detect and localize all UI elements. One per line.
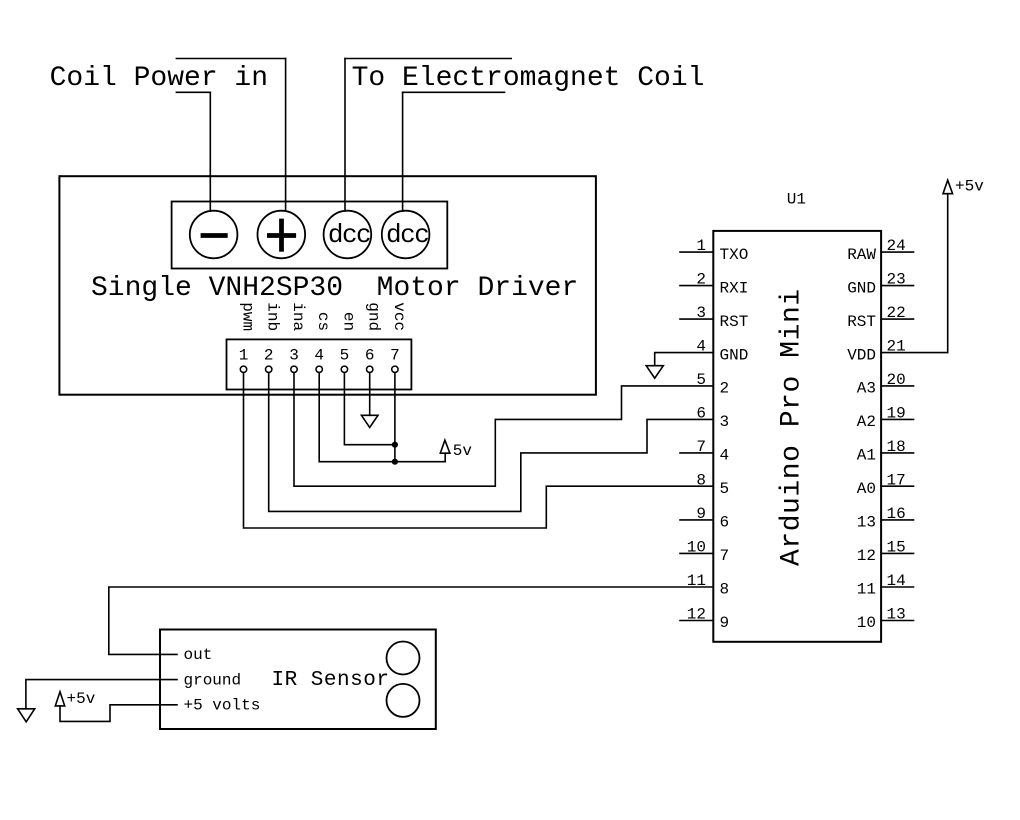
svg-text:8: 8	[720, 581, 730, 599]
terminal plus symbol	[269, 221, 293, 249]
connector pin circle 2	[266, 366, 272, 372]
svg-text:16: 16	[887, 505, 906, 523]
connector pin circle 4	[316, 366, 322, 372]
wire from Coil Power in label to - terminal	[209, 92, 211, 211]
U1 pin 18 stub	[881, 452, 913, 454]
label +5v top right	[955, 178, 984, 196]
IR sensor pin labels	[184, 646, 261, 714]
connector pin circle 3	[291, 366, 297, 372]
label +5v at IR sensor	[67, 690, 96, 708]
svg-text:A0: A0	[857, 480, 876, 498]
label 5v	[453, 442, 473, 460]
U1 pin 12 stub	[680, 620, 713, 622]
U1 pin 22 stub RST	[881, 318, 913, 320]
U1 pin 10 stub	[680, 552, 713, 554]
label Arduino Pro Mini rotated	[777, 288, 808, 566]
wire vcc pin7 down	[394, 373, 396, 462]
connector pin circle 6	[367, 366, 373, 372]
U1 left pin numbers	[687, 237, 706, 623]
svg-text:11: 11	[687, 572, 706, 590]
svg-text:GND: GND	[720, 346, 749, 364]
svg-text:5v: 5v	[453, 442, 473, 460]
svg-text:6: 6	[720, 514, 730, 532]
svg-text:TXO: TXO	[720, 246, 749, 264]
+5v supply arrow at IR sensor	[55, 692, 64, 706]
svg-text:20: 20	[887, 371, 906, 389]
U1 pin 17 stub	[881, 485, 913, 487]
svg-text:3: 3	[720, 413, 730, 431]
svg-text:11: 11	[857, 581, 876, 599]
connector pin label inb	[264, 302, 282, 331]
svg-text:2: 2	[264, 346, 274, 364]
U1 right pin names	[847, 246, 876, 632]
svg-text:22: 22	[887, 304, 906, 322]
op chip U1 Arduino Pro Mini box	[713, 231, 881, 642]
terminal dcc label 1	[328, 220, 370, 250]
IR sensor lens circle top	[387, 642, 420, 675]
svg-text:To Electromagnet Coil: To Electromagnet Coil	[352, 63, 705, 94]
svg-text:9: 9	[696, 505, 706, 523]
junction dot vcc-en	[392, 442, 398, 448]
svg-text:U1: U1	[787, 191, 806, 209]
svg-text:8: 8	[696, 471, 706, 489]
wire overline of To Electromagnet Coil label	[345, 58, 511, 60]
terminal plus circle	[258, 211, 306, 259]
ground symbol at motor connector pin 6	[361, 415, 378, 427]
U1 pin 13 stub	[881, 620, 913, 622]
terminal minus circle	[190, 211, 238, 259]
svg-text:A2: A2	[857, 413, 876, 431]
svg-text:10: 10	[687, 538, 706, 556]
svg-text:2: 2	[720, 380, 730, 398]
connector pin circle 1	[240, 366, 246, 372]
terminal dcc label 2	[386, 220, 428, 250]
U1 pin 15 stub	[881, 552, 913, 554]
svg-text:gnd: gnd	[365, 302, 383, 331]
svg-text:dcc: dcc	[328, 220, 370, 250]
U1 pin 4 GND wire	[655, 353, 714, 366]
svg-text:24: 24	[887, 237, 906, 255]
svg-text:ina: ina	[289, 302, 307, 331]
U1 pin 21 VDD wire to +5v	[881, 194, 948, 353]
wire ina pin3 to arduino pin5 net	[294, 373, 713, 487]
motor driver module outline box	[59, 176, 596, 395]
svg-text:5: 5	[340, 346, 350, 364]
svg-text:dcc: dcc	[386, 220, 428, 250]
svg-text:A1: A1	[857, 447, 876, 465]
svg-text:Arduino Pro Mini: Arduino Pro Mini	[777, 288, 808, 566]
svg-text:+5v: +5v	[955, 178, 984, 196]
svg-text:+5 volts: +5 volts	[184, 697, 261, 715]
IR sensor lens circle bottom	[387, 684, 420, 717]
label Coil Power in	[50, 63, 268, 94]
svg-text:14: 14	[887, 572, 906, 590]
U1 left pin names	[720, 246, 749, 632]
U1 pin 23 stub GND	[881, 285, 913, 287]
svg-text:5: 5	[696, 371, 706, 389]
svg-text:Coil Power in: Coil Power in	[50, 63, 268, 94]
svg-text:15: 15	[887, 538, 906, 556]
U1 pin 14 stub	[881, 586, 913, 588]
label Single VNH2SP30 Motor Driver	[91, 273, 578, 304]
connector pin circle 7	[392, 366, 398, 372]
svg-text:GND: GND	[847, 279, 876, 297]
U1 pin 1 stub TXO	[680, 251, 713, 253]
connector pin label ina	[289, 302, 307, 331]
terminal dcc circle 1	[324, 211, 372, 259]
U1 pin 24 stub RAW	[881, 251, 913, 253]
svg-text:RST: RST	[720, 313, 749, 331]
+5v supply arrow top right	[943, 180, 953, 194]
label U1	[787, 191, 806, 209]
U1 pin 7 stub	[680, 452, 713, 454]
svg-text:3: 3	[696, 304, 706, 322]
U1 pin 20 stub	[881, 385, 913, 387]
wire IR sensor ground pin to ground	[26, 680, 177, 709]
svg-text:1: 1	[696, 237, 706, 255]
connector box of motor driver	[227, 339, 412, 389]
svg-text:5: 5	[720, 480, 730, 498]
svg-text:Single VNH2SP30 Motor Driver: Single VNH2SP30 Motor Driver	[91, 273, 578, 304]
svg-text:+5v: +5v	[67, 690, 96, 708]
svg-text:7: 7	[696, 438, 706, 456]
wire cs pin4 to 5v	[319, 373, 445, 462]
svg-text:12: 12	[857, 547, 876, 565]
svg-text:10: 10	[857, 614, 876, 632]
svg-text:4: 4	[696, 338, 706, 356]
wire underline of Coil Power in label	[176, 91, 210, 93]
svg-text:19: 19	[887, 405, 906, 423]
svg-text:inb: inb	[264, 302, 282, 331]
svg-text:en: en	[339, 312, 357, 331]
svg-text:vcc: vcc	[390, 302, 408, 331]
svg-text:4: 4	[720, 447, 730, 465]
ground symbol at IR sensor	[18, 709, 35, 722]
svg-text:9: 9	[720, 614, 730, 632]
svg-text:6: 6	[696, 405, 706, 423]
wire from To Electromagnet Coil label to dcc terminal 1	[344, 59, 346, 212]
wire gnd pin6 down	[369, 373, 371, 416]
U1 pin 11 wire to IR sensor out	[109, 587, 714, 654]
wire IR sensor +5 volts pin to +5v arrow	[60, 705, 177, 722]
svg-text:2: 2	[696, 271, 706, 289]
5v supply arrow near motor connector	[440, 440, 450, 462]
svg-text:ground: ground	[184, 671, 242, 689]
label To Electromagnet Coil	[352, 63, 705, 94]
terminal dcc circle 2	[382, 211, 430, 259]
connector pin label en	[339, 312, 357, 331]
svg-text:out: out	[184, 646, 213, 664]
svg-text:A3: A3	[857, 380, 876, 398]
U1 pin 2 stub RXI	[680, 285, 713, 287]
svg-text:7: 7	[720, 547, 730, 565]
svg-text:3: 3	[289, 346, 299, 364]
connector pin numbers 1-7	[239, 346, 400, 364]
svg-text:VDD: VDD	[847, 346, 876, 364]
svg-text:23: 23	[887, 271, 906, 289]
svg-text:RXI: RXI	[720, 279, 749, 297]
svg-text:RAW: RAW	[847, 246, 876, 264]
wire en pin5 to vcc net	[344, 373, 395, 445]
connector pin label cs	[314, 312, 332, 331]
svg-text:4: 4	[314, 346, 324, 364]
svg-text:cs: cs	[314, 312, 332, 331]
svg-text:13: 13	[887, 605, 906, 623]
svg-text:17: 17	[887, 471, 906, 489]
terminal block box	[172, 202, 448, 269]
U1 pin 19 stub	[881, 418, 913, 420]
svg-text:1: 1	[239, 346, 249, 364]
U1 pin 9 stub	[680, 519, 713, 521]
svg-text:6: 6	[365, 346, 375, 364]
svg-text:13: 13	[857, 514, 876, 532]
connector pin label gnd	[365, 302, 383, 331]
svg-text:18: 18	[887, 438, 906, 456]
wire inb pin2 to arduino pin6 net	[269, 373, 714, 512]
wire overline of Coil Power in label	[176, 58, 285, 60]
junction dot vcc-cs	[392, 459, 398, 465]
label IR Sensor	[272, 669, 390, 692]
wire pwm pin1 to arduino pin8 net	[244, 373, 714, 529]
wire underline of To Electromagnet Coil label	[403, 91, 505, 93]
U1 pin 16 stub	[881, 519, 913, 521]
U1 pin 3 stub RST	[680, 318, 713, 320]
svg-text:IR Sensor: IR Sensor	[272, 669, 390, 692]
connector pin label pwm	[239, 302, 257, 331]
ground symbol at U1 pin 4	[646, 366, 663, 379]
svg-text:21: 21	[887, 338, 906, 356]
connector pin label vcc	[390, 302, 408, 331]
svg-text:7: 7	[390, 346, 400, 364]
wire from Coil Power in label to + terminal	[285, 59, 287, 212]
svg-text:12: 12	[687, 605, 706, 623]
terminal minus symbol	[203, 233, 225, 238]
svg-text:RST: RST	[847, 313, 876, 331]
connector pin circle 5	[341, 366, 347, 372]
U1 right pin numbers	[887, 237, 906, 623]
svg-text:pwm: pwm	[239, 302, 257, 331]
IR sensor box	[160, 630, 436, 730]
wire from To Electromagnet Coil label to dcc terminal 2	[402, 92, 404, 211]
